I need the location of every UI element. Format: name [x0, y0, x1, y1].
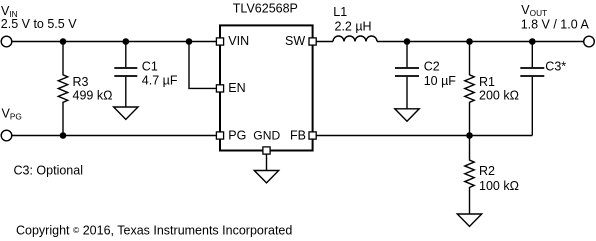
resistor R3: [58, 42, 67, 136]
ground (R2): [457, 214, 481, 226]
svg-text:GND: GND: [253, 129, 280, 143]
svg-text:C3: Optional: C3: Optional: [14, 164, 83, 178]
wire: GND pin stub: [266, 154, 268, 171]
svg-text:10 µF: 10 µF: [424, 74, 457, 88]
svg-text:FB: FB: [290, 129, 306, 143]
node: R3 top junction: [60, 39, 65, 44]
svg-text:VOUT: VOUT: [521, 3, 547, 18]
svg-text:Copyright © 2016, Texas Instru: Copyright © 2016, Texas Instruments Inco…: [16, 224, 292, 238]
svg-text:EN: EN: [228, 81, 245, 95]
resistor R1: [465, 42, 474, 136]
ground (C1): [114, 107, 138, 119]
svg-text:C1: C1: [142, 60, 158, 74]
output terminal V_OUT: [584, 36, 595, 47]
pin SW square: [309, 38, 316, 45]
ground (C2): [395, 109, 419, 121]
capacitor C2: [406, 42, 408, 68]
node: FB junction: [467, 133, 472, 138]
svg-text:C3*: C3*: [545, 60, 566, 74]
svg-text:200 kΩ: 200 kΩ: [479, 88, 519, 102]
capacitor C1: [125, 42, 127, 68]
svg-text:L1: L1: [333, 5, 347, 19]
resistor R2: [465, 136, 474, 215]
svg-text:100 kΩ: 100 kΩ: [479, 179, 519, 193]
svg-text:2.2 µH: 2.2 µH: [335, 19, 372, 33]
svg-text:VPG: VPG: [2, 107, 22, 122]
node: C2 top junction: [404, 39, 409, 44]
svg-text:SW: SW: [285, 34, 305, 48]
node: R1 top junction: [467, 39, 472, 44]
wire: SW pin to inductor: [316, 41, 333, 43]
input terminal V_IN: [1, 36, 12, 47]
wire: V_PG to PG pin: [12, 135, 217, 137]
node: C3 top junction: [530, 39, 535, 44]
pin FB square: [309, 132, 316, 139]
svg-text:C2: C2: [424, 60, 440, 74]
svg-text:2.5 V to 5.5 V: 2.5 V to 5.5 V: [1, 17, 77, 31]
svg-text:TLV62568P: TLV62568P: [233, 2, 298, 16]
svg-text:1.8 V / 1.0 A: 1.8 V / 1.0 A: [521, 17, 590, 31]
svg-text:PG: PG: [228, 129, 246, 143]
svg-text:R1: R1: [479, 75, 495, 89]
svg-text:4.7 µF: 4.7 µF: [142, 73, 178, 87]
pin VIN square: [216, 38, 223, 45]
pin GND square: [263, 147, 270, 154]
ground (GND pin): [254, 171, 278, 183]
pin PG square: [216, 132, 223, 139]
node: C1 top junction: [123, 39, 128, 44]
wire: inductor to output terminal: [377, 41, 584, 43]
node: R3 bottom junction: [60, 133, 65, 138]
pin EN square: [216, 85, 223, 92]
wire: input terminal to VIN pin: [12, 41, 217, 43]
wire: EN branch: [189, 42, 216, 89]
inductor L1: [333, 36, 377, 41]
node: EN branch junction: [186, 39, 191, 44]
svg-text:499 kΩ: 499 kΩ: [73, 88, 113, 102]
wire: FB net: [316, 135, 532, 137]
svg-text:R2: R2: [479, 164, 495, 178]
svg-text:R3: R3: [73, 75, 89, 89]
capacitor C3: [531, 42, 533, 68]
terminal V_PG: [1, 130, 12, 141]
svg-text:VIN: VIN: [228, 34, 249, 48]
IC U1 TLV62568P box: [220, 25, 313, 150]
